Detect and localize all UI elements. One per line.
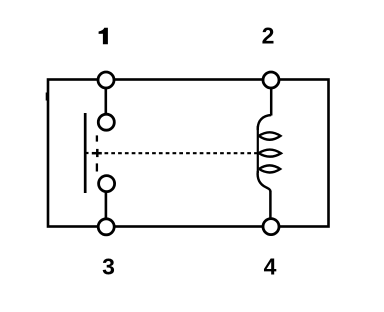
coil loop 3 — [259, 165, 280, 172]
terminal 3 — [98, 219, 114, 235]
terminal 4 — [263, 219, 279, 235]
mechanical link cross horizontal arm — [92, 152, 102, 155]
coil bottom arc — [258, 171, 271, 192]
svg-text:3: 3 — [102, 254, 115, 280]
coil top arc — [258, 115, 271, 130]
wire lower contact to terminal3 — [105, 191, 108, 219]
svg-text:4: 4 — [264, 254, 277, 280]
switch armature bar — [84, 113, 87, 193]
mechanical link horizontal dashed — [105, 152, 258, 154]
mechanical link vertical dashed upper dash — [96, 135, 98, 141]
coil spine — [257, 126, 259, 173]
mechanical link vertical dashed lower dash — [96, 163, 98, 171]
switch upper fixed contact — [98, 114, 114, 130]
terminal 2 — [263, 72, 279, 88]
coil loop 2 — [259, 150, 281, 157]
switch lower fixed contact — [99, 176, 115, 192]
pin label 1 — [99, 28, 108, 45]
mechanical link cross vertical arm — [96, 149, 99, 157]
wire terminal2 to coil top — [270, 87, 273, 116]
svg-text:2: 2 — [262, 23, 275, 49]
wire coil bottom to terminal4 — [269, 191, 272, 219]
coil loop 1 — [259, 132, 281, 139]
wire terminal1 to upper contact — [105, 87, 108, 115]
mechanical link nub at armature — [85, 152, 89, 154]
left edge scan blob — [46, 93, 49, 101]
relay body outline — [48, 80, 329, 227]
terminal 1 — [98, 72, 114, 88]
